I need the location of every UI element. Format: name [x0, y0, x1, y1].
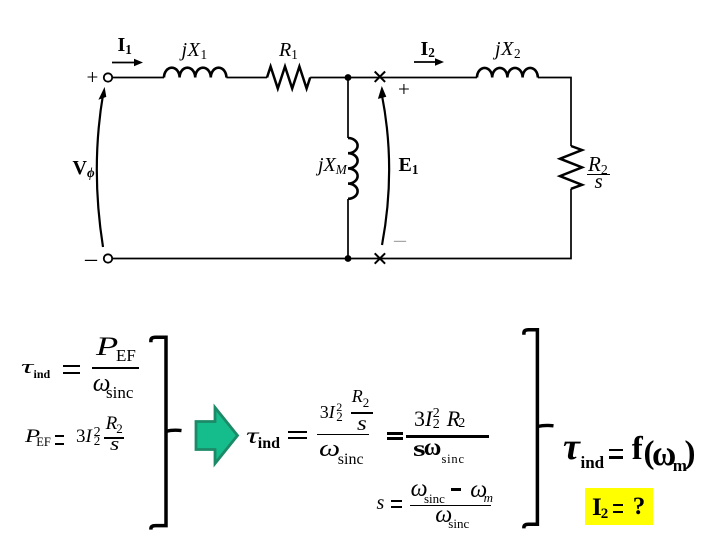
main fraction bar (eq3 frac1) [317, 434, 369, 436]
3I numerator (eq3 frac2) [414, 408, 432, 430]
wire between jX1 and R1 [226, 77, 267, 79]
terminal bottom-left open circle [104, 254, 112, 262]
3I (eq2) [76, 427, 92, 446]
E1 voltage arrow [382, 94, 390, 246]
wire right side down to bottom-right corner [348, 189, 571, 259]
I bold (box) [592, 495, 602, 520]
nested fraction bar (eq3) [351, 412, 373, 414]
close paren (result) [685, 437, 696, 470]
subscript 2 (eq3 frac1) [336, 410, 343, 423]
yellow highlight box [585, 488, 653, 525]
main fraction bar (eq3 frac2) [406, 435, 489, 438]
subscript 2 of nested R2 (eq3) [363, 396, 370, 409]
I2 current arrow [414, 61, 437, 63]
label s (denominator of R2/s) [595, 171, 603, 192]
equals (eq1) [63, 365, 80, 367]
question mark (box) [633, 494, 646, 519]
subscript ind (eq3) [258, 436, 280, 452]
subscript sinc (eq3 frac1) [338, 452, 364, 468]
fraction bar (eq1) [92, 367, 139, 369]
wire bottom left segment [113, 258, 349, 260]
omega bold denominator (eq3 frac2) [424, 436, 442, 460]
omega_m numerator (eq4) [470, 478, 487, 502]
omega denominator (eq4) [435, 503, 452, 527]
subscript sinc (eq3 frac2) [442, 453, 465, 466]
tau (eq1) [21, 358, 33, 377]
minus sign (eq4) [451, 488, 461, 491]
wire node A to jX2 [348, 77, 477, 79]
s nested denominator (eq3) [357, 414, 367, 434]
node A junction dot [345, 74, 352, 81]
subscript sinc (eq1) [106, 384, 133, 401]
subscript EF (eq2) [36, 436, 51, 449]
plus sign at source top [87, 67, 99, 88]
minus sign at E1 bottom (faint) [394, 228, 406, 252]
subscript m numerator (eq4) [484, 491, 493, 504]
equals (box) [613, 504, 624, 506]
f bold (result) [632, 433, 643, 466]
bracket 2 middle tick [538, 425, 554, 426]
x terminal top (air gap) [375, 72, 385, 82]
3I numerator (eq3) [320, 403, 335, 421]
subscript 2 of R2 (eq3 frac2) [458, 417, 465, 431]
green block arrow [196, 408, 238, 464]
plus sign at E1 top [398, 79, 410, 100]
fraction bar of R2/s [587, 174, 610, 176]
label jXM [318, 155, 347, 175]
superscript 2 (eq3 frac1) [336, 401, 342, 413]
subscript m bold (result) [673, 457, 687, 474]
label jX2 [495, 39, 521, 59]
wire R1 to node A [310, 77, 348, 79]
minus sign at source bottom [85, 247, 97, 271]
equals bold (result) [609, 449, 623, 452]
subscript 2 of R2 (eq2) [116, 422, 123, 435]
omega_sinc numerator (eq4) [411, 477, 428, 501]
second equals (eq3) [387, 432, 403, 435]
subscript EF (eq1) [116, 347, 136, 364]
bracket 1 middle tick [166, 430, 182, 431]
label I1 [118, 35, 132, 55]
subscript ind bold (result) [581, 454, 605, 471]
s denominator (eq2) [110, 435, 119, 454]
open paren (result) [644, 437, 655, 470]
x terminal bottom (air gap) [375, 253, 385, 263]
fraction bar (eq4) [410, 505, 491, 507]
tau bold (result) [563, 428, 580, 466]
subscript 2 (eq3 frac2) [433, 418, 440, 432]
label I2 [421, 39, 435, 59]
small fraction bar (eq2) [104, 437, 124, 439]
subscript ind (eq1) [34, 368, 51, 380]
inductor jX2 [477, 68, 538, 78]
numerator P (eq1) [96, 334, 118, 360]
wire middle branch [347, 78, 349, 259]
R nested numerator (eq3) [352, 387, 363, 405]
resistor R1 [267, 67, 310, 89]
subscript 2 (eq2) [94, 434, 101, 447]
subscript sinc numerator (eq4) [424, 492, 445, 505]
R2 numerator (eq3 frac2) [447, 408, 460, 430]
equals (eq4) [391, 500, 402, 502]
inductor jXM [348, 138, 358, 199]
label jX1 [182, 40, 208, 60]
label Vphi [73, 158, 95, 178]
label R1 [279, 40, 298, 60]
superscript 2 (eq3 frac2) [433, 407, 440, 421]
wire jX2 to top-right corner [538, 78, 571, 147]
I1 current arrow [112, 62, 136, 64]
first equals (eq3) [288, 431, 306, 433]
inductor jX1 [164, 68, 226, 78]
subscript sinc denominator (eq4) [448, 517, 469, 530]
subscript 2 (box) [601, 507, 609, 522]
denominator omega (eq1) [93, 371, 111, 396]
node B junction dot [345, 255, 352, 262]
label E1 [399, 155, 419, 175]
label R2 (numerator of R2/s) [588, 154, 608, 175]
omega bold (result) [652, 435, 676, 471]
bracket 1 (after first equation group) [151, 337, 166, 529]
R2 numerator (eq2) [106, 414, 118, 433]
equals (eq2) [55, 435, 64, 437]
terminal top-left open circle [104, 73, 112, 81]
superscript 2 (eq2) [94, 426, 101, 440]
omega denominator (eq3 frac1) [319, 437, 340, 460]
s (eq4) [377, 493, 385, 513]
Vphi voltage arrow [97, 94, 103, 248]
resistor R2/s [560, 146, 582, 189]
bracket 2 (after second equation group) [524, 330, 538, 529]
s bold denominator (eq3 frac2) [413, 437, 426, 460]
wire top left segment [113, 77, 165, 79]
P (eq2) [25, 427, 40, 446]
tau (eq3) [246, 424, 258, 447]
